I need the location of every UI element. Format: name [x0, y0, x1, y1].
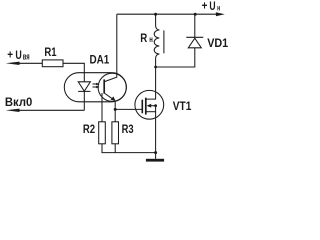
svg-text:вя: вя — [23, 51, 30, 61]
svg-text:+: + — [202, 0, 208, 12]
svg-text:VD1: VD1 — [207, 36, 228, 50]
svg-text:R2: R2 — [83, 122, 95, 136]
svg-text:+: + — [7, 48, 13, 62]
svg-text:R1: R1 — [44, 45, 56, 59]
svg-text:R3: R3 — [122, 122, 134, 136]
svg-text:Вкл0: Вкл0 — [5, 95, 33, 109]
svg-text:R: R — [140, 31, 147, 45]
svg-text:U: U — [15, 48, 21, 62]
svg-text:н: н — [217, 2, 220, 12]
svg-text:VT1: VT1 — [173, 99, 192, 113]
svg-text:U: U — [209, 0, 215, 13]
svg-text:н: н — [149, 34, 153, 44]
svg-text:DA1: DA1 — [90, 53, 110, 67]
